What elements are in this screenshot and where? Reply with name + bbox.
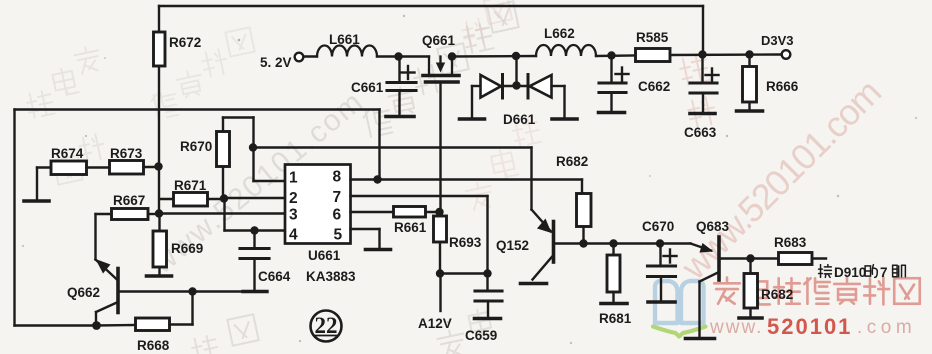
node gate junction (435, 208, 443, 216)
svg-text:7: 7 (333, 189, 342, 206)
svg-text:5: 5 (334, 227, 343, 244)
svg-text:R674: R674 (51, 146, 84, 161)
wire top rail (159, 5, 703, 7)
node C664 junction (250, 226, 258, 234)
node C663 junction (698, 50, 706, 58)
svg-text:R666: R666 (766, 79, 799, 94)
svg-text:R668: R668 (137, 338, 170, 353)
svg-text:C662: C662 (638, 79, 670, 94)
inductor L661 (317, 46, 377, 57)
ground D661 right (563, 86, 565, 117)
transistor Q152 (530, 148, 532, 210)
svg-text:.com: .com (857, 317, 916, 338)
node pin1 branch junction (249, 143, 257, 151)
svg-text:L662: L662 (544, 26, 575, 41)
svg-text:KA3883: KA3883 (306, 269, 356, 284)
node pin8 junction (373, 175, 381, 183)
svg-text:R661: R661 (394, 220, 427, 235)
node L661/C661 junction (394, 52, 402, 60)
svg-text:R673: R673 (110, 146, 143, 161)
capacitor C663 (701, 55, 703, 82)
svg-text:Q661: Q661 (422, 33, 456, 48)
wire to Q152 base (253, 146, 532, 148)
node bottom junction (92, 321, 101, 330)
node R681 junction (609, 239, 617, 247)
wire Q661 gate line (439, 84, 441, 213)
svg-text:7: 7 (880, 265, 888, 280)
resistor R683 (751, 257, 779, 259)
capacitor C661 (398, 57, 400, 82)
ground D661 left (471, 86, 473, 117)
svg-text:R672: R672 (169, 35, 201, 50)
node C670 junction (656, 239, 664, 247)
node page ref 22 (311, 311, 342, 342)
svg-text:Q662: Q662 (67, 285, 100, 300)
svg-text:22: 22 (315, 313, 338, 338)
wire rail (304, 55, 318, 57)
wire Q152 emitter out (555, 242, 691, 244)
wire Q662 base (120, 290, 193, 292)
resistor R681 (612, 244, 614, 256)
svg-text:R585: R585 (636, 30, 669, 45)
capacitor C662 (610, 56, 612, 82)
svg-text:4: 4 (289, 227, 298, 244)
resistor R693 (439, 212, 441, 216)
resistor R666 (745, 50, 753, 58)
svg-text:www.: www. (709, 317, 763, 338)
svg-text:C663: C663 (684, 125, 717, 140)
wire pin1 (254, 180, 286, 182)
node R682 bottom junction (579, 239, 587, 247)
resistor R674 (37, 166, 51, 168)
wire Q683 emitter out (721, 257, 751, 259)
resistor R672 (154, 32, 166, 66)
svg-text:5. 2V: 5. 2V (260, 55, 292, 70)
svg-text:6: 6 (333, 207, 342, 224)
svg-text:D910: D910 (834, 265, 866, 280)
wire pin7 (351, 195, 488, 197)
svg-text:A12V: A12V (418, 316, 452, 331)
svg-text:2: 2 (289, 190, 298, 207)
node R682b junction (746, 254, 754, 262)
wire Q152 collector to ground (533, 255, 554, 280)
svg-text:3: 3 (289, 207, 298, 224)
op-amp U661 (285, 165, 351, 244)
wire R672 branch vertical (158, 6, 160, 167)
svg-text:Q683: Q683 (696, 219, 730, 234)
watermark CJK row (714, 278, 740, 304)
svg-text:Q152: Q152 (496, 238, 529, 253)
node output note (819, 265, 832, 278)
resistor R671 (160, 198, 174, 200)
wire Q662 collector (96, 302, 118, 312)
resistor R670 (217, 132, 230, 167)
node A12V feed (439, 274, 441, 312)
node R671 junction (220, 194, 228, 202)
svg-text:R671: R671 (174, 178, 207, 193)
watermark book icon (655, 281, 704, 323)
capacitor C670 (659, 244, 661, 265)
node pin3 junction (155, 209, 163, 217)
wire Q683 collector (700, 272, 720, 282)
ground pin5 (366, 248, 391, 252)
svg-text:R667: R667 (113, 193, 145, 208)
svg-text:R682: R682 (556, 154, 588, 169)
ground R674 (36, 168, 38, 200)
wire pin8 (351, 178, 583, 180)
wire pin4 link (223, 199, 225, 231)
wire pin6 (351, 211, 394, 213)
wire feedback loop (15, 108, 380, 110)
svg-text:8: 8 (333, 169, 342, 186)
svg-text:R682: R682 (761, 287, 793, 302)
resistor R585 (636, 49, 671, 62)
node Q662 base junction (188, 287, 196, 295)
node C662 junction (607, 51, 615, 59)
resistor R682 top (581, 180, 583, 194)
wire pin5 (351, 228, 380, 230)
node Q661 drain junction (448, 52, 456, 60)
svg-text:R683: R683 (774, 235, 807, 250)
svg-text:C659: C659 (465, 328, 497, 343)
node D3V3 terminal (782, 50, 791, 59)
svg-text:D3V3: D3V3 (761, 33, 794, 48)
resistor R661 (394, 207, 426, 218)
capacitor C659 (475, 289, 502, 292)
svg-text:520101: 520101 (767, 314, 852, 339)
svg-text:D661: D661 (503, 112, 536, 127)
capacitor C664 (253, 231, 255, 248)
wire pin2 (224, 197, 285, 199)
svg-text:C670: C670 (642, 219, 674, 234)
svg-text:1: 1 (289, 170, 298, 187)
resistor R667 (96, 213, 112, 215)
svg-text:U661: U661 (308, 248, 341, 263)
inductor L662 (536, 45, 596, 56)
node R673 junction (154, 162, 162, 170)
resistor R673 (87, 166, 110, 168)
svg-text:L661: L661 (329, 32, 360, 47)
diode D661 (515, 56, 517, 86)
node A12V junction right (483, 269, 491, 277)
node A12V junction (436, 269, 444, 277)
svg-text:R693: R693 (449, 235, 482, 250)
node D661 top junction (512, 52, 520, 60)
transistor Q662 (94, 214, 96, 260)
resistor R668 (97, 324, 136, 327)
wire to C664 bottom (193, 290, 256, 292)
svg-text:R669: R669 (171, 241, 203, 256)
svg-text:C661: C661 (351, 80, 384, 95)
wire pin3 (159, 212, 285, 214)
svg-text:C664: C664 (258, 269, 291, 284)
svg-text:R670: R670 (180, 139, 212, 154)
resistor R682 bottom (749, 259, 751, 274)
svg-text:R681: R681 (599, 311, 632, 326)
resistor R669 (158, 214, 160, 232)
